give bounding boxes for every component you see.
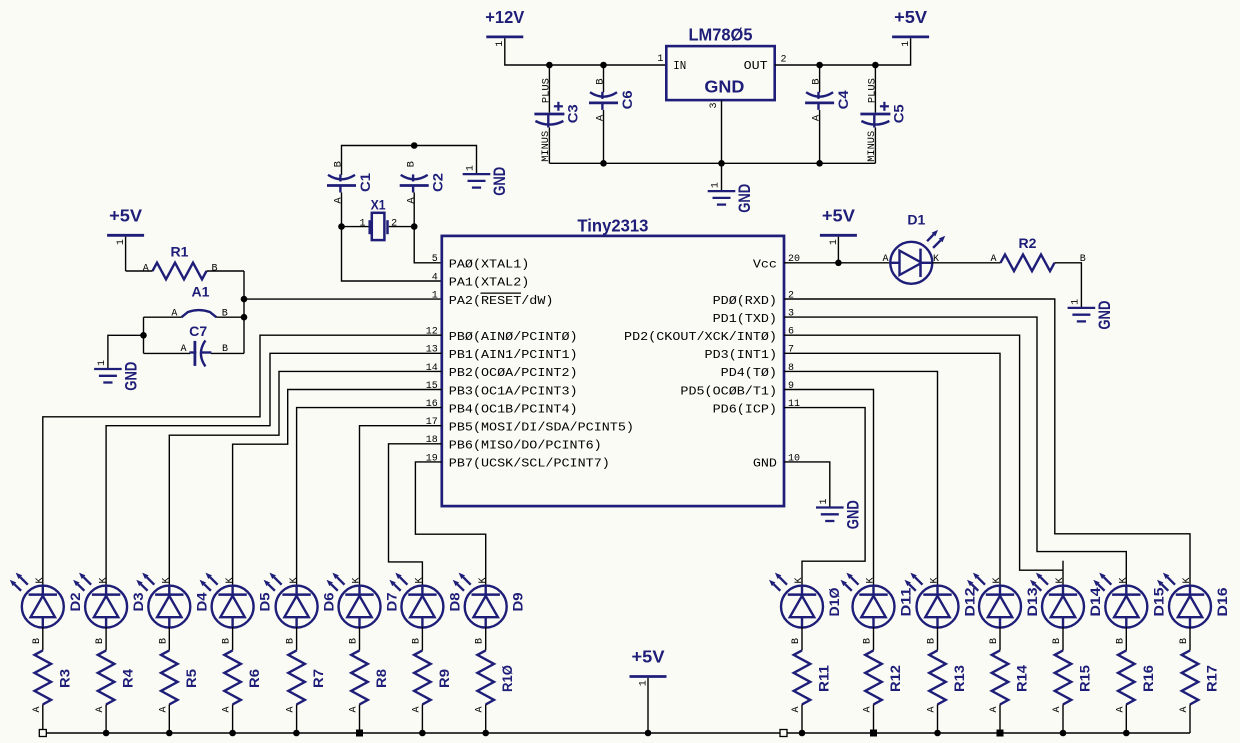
svg-text:K: K xyxy=(794,577,805,583)
wire PD1 to D15 xyxy=(784,317,1126,586)
svg-text:A: A xyxy=(349,706,360,712)
svg-text:R12: R12 xyxy=(887,665,903,692)
wire PB6 to D8 xyxy=(389,444,442,586)
svg-text:R1: R1 xyxy=(171,244,189,260)
wire D4 to R5 xyxy=(168,627,170,651)
wire D3 to R4 xyxy=(105,627,107,651)
resistor R12 xyxy=(865,650,903,704)
svg-text:11: 11 xyxy=(788,399,800,410)
svg-text:PAØ(XTAL1): PAØ(XTAL1) xyxy=(449,258,530,272)
LED D9 xyxy=(453,573,526,713)
svg-text:Tiny2313: Tiny2313 xyxy=(577,216,648,236)
svg-text:D9: D9 xyxy=(510,592,526,611)
LED D12 xyxy=(905,573,978,713)
wire D6 to R7 xyxy=(296,627,298,651)
power +12V xyxy=(485,7,524,47)
junction C4 bottom xyxy=(816,160,823,167)
svg-text:B: B xyxy=(158,638,169,644)
svg-text:9: 9 xyxy=(788,381,794,392)
voltage regulator LM7805 xyxy=(657,25,786,109)
svg-text:14: 14 xyxy=(426,363,438,374)
resistor R9 xyxy=(414,650,452,704)
wire C5 lower xyxy=(874,128,876,164)
svg-text:C3: C3 xyxy=(564,104,580,123)
wire PB3 to D5 xyxy=(233,390,442,587)
svg-text:B: B xyxy=(349,638,360,644)
svg-text:R11: R11 xyxy=(816,665,832,692)
svg-text:D13: D13 xyxy=(1024,587,1040,616)
wire R5 to rail xyxy=(168,704,170,733)
svg-text:GND: GND xyxy=(753,457,777,471)
LED D1 xyxy=(882,211,945,283)
resistor R6 xyxy=(224,650,262,704)
LED D16 xyxy=(1157,573,1230,713)
power +5V reset xyxy=(107,206,144,246)
wire C6 upper xyxy=(603,65,605,92)
resistor R16 xyxy=(1118,650,1156,704)
svg-text:A: A xyxy=(791,706,802,712)
LED D5 xyxy=(200,573,273,713)
svg-text:16: 16 xyxy=(426,399,438,410)
svg-text:A: A xyxy=(405,197,417,204)
capacitor C4 xyxy=(805,78,851,121)
svg-text:A: A xyxy=(595,114,607,121)
svg-text:3: 3 xyxy=(709,102,720,108)
svg-text:+5V: +5V xyxy=(109,206,142,226)
junction rail D5 xyxy=(229,730,236,737)
svg-text:A: A xyxy=(333,197,345,204)
ground xtal xyxy=(463,165,509,196)
svg-text:D8: D8 xyxy=(446,592,462,611)
svg-text:GND: GND xyxy=(736,184,754,213)
svg-text:1: 1 xyxy=(711,182,722,188)
resistor R13 xyxy=(929,650,967,704)
wire D15 to R16 xyxy=(1125,627,1127,651)
wire end marker mid xyxy=(780,730,787,737)
wire rail to ground xyxy=(721,163,723,191)
svg-text:B: B xyxy=(1115,638,1126,644)
junction rail D9 xyxy=(482,730,489,737)
wire R9 to rail xyxy=(421,704,423,733)
svg-text:PB1(AIN1/PCINT1): PB1(AIN1/PCINT1) xyxy=(449,348,578,362)
svg-text:B: B xyxy=(32,638,43,644)
svg-text:1: 1 xyxy=(97,360,108,366)
svg-text:GND: GND xyxy=(704,76,744,96)
svg-text:OUT: OUT xyxy=(744,59,768,73)
svg-text:B: B xyxy=(411,638,422,644)
svg-text:R2: R2 xyxy=(1019,235,1037,251)
svg-text:D14: D14 xyxy=(1087,587,1103,616)
svg-text:C1: C1 xyxy=(357,173,373,192)
LED D14 xyxy=(1030,573,1103,713)
svg-text:A: A xyxy=(811,114,823,121)
svg-text:A: A xyxy=(1052,706,1063,712)
wire C3 upper xyxy=(548,65,550,113)
junction rail D12 xyxy=(934,730,941,737)
wire A1 to C7 left xyxy=(143,317,145,353)
junction pin3 rail xyxy=(718,160,725,167)
junction X1 left xyxy=(338,223,345,230)
wire D2 to R3 xyxy=(42,627,44,651)
wire LM7805 pin3 xyxy=(721,100,723,163)
junction rail D8 xyxy=(419,730,426,737)
LED D2 xyxy=(10,573,83,713)
wire C7 A xyxy=(144,352,191,354)
wire X1 pin1 xyxy=(342,226,370,228)
svg-text:PDØ(RXD): PDØ(RXD) xyxy=(713,294,777,308)
svg-text:A: A xyxy=(32,706,43,712)
svg-text:K: K xyxy=(1119,577,1130,583)
LED D4 xyxy=(136,573,209,713)
svg-text:D15: D15 xyxy=(1150,587,1166,616)
svg-text:GND: GND xyxy=(491,167,509,196)
svg-text:K: K xyxy=(162,577,173,583)
svg-text:C2: C2 xyxy=(430,173,446,192)
wire A1 B xyxy=(216,316,244,318)
svg-text:B: B xyxy=(475,638,486,644)
wire D7 to R8 xyxy=(359,627,361,651)
svg-text:1: 1 xyxy=(1070,299,1081,305)
resistor R11 xyxy=(794,650,832,704)
wire R16 to rail xyxy=(1125,704,1127,733)
svg-text:1: 1 xyxy=(466,165,477,171)
wire C1 C2 top link xyxy=(342,146,477,176)
svg-text:B: B xyxy=(405,161,417,167)
svg-text:A: A xyxy=(989,706,1000,712)
svg-text:10: 10 xyxy=(788,453,800,464)
svg-text:K: K xyxy=(289,577,300,583)
svg-text:A: A xyxy=(286,706,297,712)
wire +5V vcc stub xyxy=(837,237,839,263)
svg-text:1: 1 xyxy=(819,498,830,504)
wire R14 to rail xyxy=(999,704,1001,733)
svg-text:B: B xyxy=(333,161,345,167)
wire R3 to rail xyxy=(42,704,44,733)
svg-text:GND: GND xyxy=(844,500,862,529)
svg-text:1: 1 xyxy=(901,41,912,47)
wire R17 to rail xyxy=(1189,704,1191,733)
svg-text:R4: R4 xyxy=(120,669,136,688)
junction reset gnd xyxy=(140,332,147,339)
svg-text:R8: R8 xyxy=(373,669,389,688)
svg-text:A: A xyxy=(475,706,486,712)
wire PD6 to D10 xyxy=(784,408,865,587)
wire PD4 to D12 xyxy=(784,371,938,586)
svg-text:19: 19 xyxy=(426,453,438,464)
svg-text:K: K xyxy=(98,577,109,583)
wire C2 to PA0 xyxy=(414,193,442,263)
LED D1Ø xyxy=(769,573,842,713)
microcontroller U1 Tiny2313 xyxy=(426,216,800,506)
svg-text:B: B xyxy=(211,263,217,274)
svg-text:+5V: +5V xyxy=(632,647,665,667)
ground IC xyxy=(816,498,862,529)
capacitor C1 xyxy=(327,161,373,204)
capacitor C3 xyxy=(534,78,580,162)
svg-text:PA1(XTAL2): PA1(XTAL2) xyxy=(449,276,530,290)
junction Vcc +5V xyxy=(835,260,842,267)
svg-text:R9: R9 xyxy=(436,669,452,688)
wire R8 to rail xyxy=(359,704,361,733)
svg-text:PD4(TØ): PD4(TØ) xyxy=(721,366,777,380)
wire R13 to rail xyxy=(937,704,939,733)
capacitor C2 xyxy=(400,161,446,204)
svg-text:B: B xyxy=(1179,638,1190,644)
wire +12V to LM7805 IN xyxy=(505,38,667,65)
junction C6 bottom xyxy=(600,160,607,167)
junction C2 top xyxy=(411,142,418,149)
svg-text:R5: R5 xyxy=(183,669,199,688)
ground R2 xyxy=(1068,299,1114,330)
svg-text:A: A xyxy=(863,706,874,712)
svg-text:D3: D3 xyxy=(130,592,146,611)
svg-text:8: 8 xyxy=(788,363,794,374)
svg-text:12: 12 xyxy=(426,327,438,338)
LED D11 xyxy=(841,573,914,713)
svg-text:PB5(MOSI/DI/SDA/PCINT5): PB5(MOSI/DI/SDA/PCINT5) xyxy=(449,421,634,435)
svg-text:1: 1 xyxy=(359,218,365,229)
svg-text:B: B xyxy=(927,638,938,644)
svg-text:A: A xyxy=(95,706,106,712)
wire C4 upper xyxy=(819,65,821,92)
wire to reset ground xyxy=(108,335,144,369)
wire R12 to rail xyxy=(873,704,875,733)
wire D1Ø to R11 xyxy=(801,627,803,651)
svg-text:K: K xyxy=(35,577,46,583)
svg-text:B: B xyxy=(791,638,802,644)
svg-text:R13: R13 xyxy=(951,665,967,692)
wire R2 B to ground xyxy=(1055,263,1082,308)
wire D14 to R15 xyxy=(1062,627,1064,651)
svg-text:X1: X1 xyxy=(371,196,386,212)
junction rail D11 sq xyxy=(870,730,877,737)
svg-text:C5: C5 xyxy=(890,104,906,123)
svg-text:PB3(OC1A/PCINT3): PB3(OC1A/PCINT3) xyxy=(449,384,578,398)
svg-text:B: B xyxy=(811,78,823,84)
svg-text:B: B xyxy=(1052,638,1063,644)
svg-text:20: 20 xyxy=(788,254,800,265)
wire R7 to rail xyxy=(296,704,298,733)
resistor R5 xyxy=(161,650,199,704)
svg-text:1: 1 xyxy=(432,290,438,301)
wire PD5 to D11 xyxy=(784,390,874,587)
svg-text:A: A xyxy=(1179,706,1190,712)
svg-text:R7: R7 xyxy=(310,669,326,688)
wire D12 to R13 xyxy=(937,627,939,651)
junction C3 top xyxy=(546,62,553,69)
junction rail D13 sq xyxy=(997,730,1004,737)
svg-text:D7: D7 xyxy=(384,592,400,611)
wire C5 upper xyxy=(874,65,876,113)
wire bottom +5V rail xyxy=(43,732,1190,734)
wire PB7 to D9 xyxy=(415,462,485,586)
svg-text:D2: D2 xyxy=(67,592,83,611)
wire OUT to +5V xyxy=(775,38,911,65)
power +5V psu xyxy=(892,7,929,47)
svg-text:A: A xyxy=(411,706,422,712)
wire Vcc to D1 xyxy=(784,262,890,264)
wire R1 A xyxy=(126,270,153,272)
wire D9 to R1Ø xyxy=(485,627,487,651)
svg-text:D1: D1 xyxy=(907,211,925,227)
svg-text:R15: R15 xyxy=(1077,665,1093,692)
wire D1 to R2 xyxy=(932,262,1001,264)
junction rail D15 xyxy=(1123,730,1130,737)
svg-text:PB7(UCSK/SCL/PCINT7): PB7(UCSK/SCL/PCINT7) xyxy=(449,457,610,471)
LED D13 xyxy=(967,573,1040,713)
svg-text:K: K xyxy=(352,577,363,583)
svg-text:C7: C7 xyxy=(189,323,207,339)
svg-text:PD2(CKOUT/XCK/INTØ): PD2(CKOUT/XCK/INTØ) xyxy=(624,330,777,344)
junction reset A1 xyxy=(241,314,248,321)
junction rail D3 xyxy=(103,730,110,737)
wire R11 to rail xyxy=(801,704,803,733)
wire PD2 to D14 xyxy=(784,335,1063,570)
wire C4 lower xyxy=(819,110,821,163)
svg-text:B: B xyxy=(286,638,297,644)
capacitor C6 xyxy=(589,78,635,121)
wire D11 to R12 xyxy=(873,627,875,651)
svg-text:B: B xyxy=(95,638,106,644)
LED D8 xyxy=(389,573,462,713)
resistor R2 xyxy=(990,235,1085,271)
svg-text:IN: IN xyxy=(673,59,686,73)
svg-text:+5V: +5V xyxy=(822,206,855,226)
wire C6 lower xyxy=(603,110,605,163)
wire D13 to R14 xyxy=(999,627,1001,651)
svg-text:GND: GND xyxy=(1096,301,1114,330)
junction rail D7 sq xyxy=(356,730,363,737)
LED D3 xyxy=(73,573,146,713)
wire PD0 to D16 xyxy=(784,299,1190,586)
svg-text:7: 7 xyxy=(788,345,794,356)
svg-text:B: B xyxy=(222,638,233,644)
wire X1 pin2 xyxy=(389,226,414,228)
wire PB2 to D4 xyxy=(169,371,442,586)
power +5V rail xyxy=(630,647,667,687)
svg-text:17: 17 xyxy=(426,417,438,428)
svg-text:R6: R6 xyxy=(246,669,262,688)
junction rail D6 xyxy=(293,730,300,737)
svg-text:PLUS: PLUS xyxy=(866,78,878,103)
capacitor C5 xyxy=(860,78,906,162)
svg-text:LM78Ø5: LM78Ø5 xyxy=(689,25,753,45)
junction X1 right xyxy=(411,223,418,230)
svg-text:5: 5 xyxy=(432,254,438,265)
resistor R3 xyxy=(35,650,73,704)
svg-text:15: 15 xyxy=(426,381,438,392)
svg-text:K: K xyxy=(478,577,489,583)
svg-text:PBØ(AINØ/PCINTØ): PBØ(AINØ/PCINTØ) xyxy=(449,330,578,344)
svg-text:R1Ø: R1Ø xyxy=(499,665,515,692)
wire D5 to R6 xyxy=(232,627,234,651)
svg-text:Vcc: Vcc xyxy=(753,258,777,272)
svg-text:18: 18 xyxy=(426,435,438,446)
wire IC GND pin10 xyxy=(784,462,830,508)
svg-text:D16: D16 xyxy=(1214,587,1230,616)
svg-text:B: B xyxy=(989,638,1000,644)
LED D6 xyxy=(264,573,337,713)
pushbutton A1 xyxy=(171,284,227,320)
wire C1 to PA1 xyxy=(342,193,442,282)
power +5V vcc xyxy=(820,206,857,246)
svg-text:B: B xyxy=(595,78,607,84)
svg-text:+5V: +5V xyxy=(894,7,927,27)
svg-text:GND: GND xyxy=(122,362,140,391)
wire PB0 to D2 xyxy=(43,335,442,586)
svg-text:D5: D5 xyxy=(257,592,273,611)
wire R6 to rail xyxy=(232,704,234,733)
wire end marker left xyxy=(39,730,46,737)
svg-text:R17: R17 xyxy=(1204,665,1220,692)
svg-text:6: 6 xyxy=(788,327,794,338)
svg-text:A: A xyxy=(222,706,233,712)
resistor R7 xyxy=(288,650,326,704)
svg-text:PB4(OC1B/PCINT4): PB4(OC1B/PCINT4) xyxy=(449,402,578,416)
wire R15 to rail xyxy=(1062,704,1064,733)
junction reset PA2 xyxy=(241,296,248,303)
svg-text:2: 2 xyxy=(781,54,787,65)
svg-text:2: 2 xyxy=(391,218,397,229)
junction C6 top xyxy=(600,62,607,69)
svg-text:A1: A1 xyxy=(192,284,210,300)
svg-text:PD1(TXD): PD1(TXD) xyxy=(713,312,777,326)
resistor R15 xyxy=(1055,650,1093,704)
crystal X1 xyxy=(359,196,397,240)
svg-text:D1Ø: D1Ø xyxy=(826,587,842,616)
junction C4 top xyxy=(816,62,823,69)
svg-text:1: 1 xyxy=(657,54,663,65)
ground reset xyxy=(94,360,140,391)
resistor R4 xyxy=(98,650,136,704)
svg-text:A: A xyxy=(990,254,996,265)
svg-text:K: K xyxy=(1055,577,1066,583)
junction rail D10 xyxy=(799,730,806,737)
wire PB1 to D3 xyxy=(106,353,442,586)
svg-text:D12: D12 xyxy=(962,587,978,616)
svg-text:A: A xyxy=(927,706,938,712)
LED D7 xyxy=(327,573,400,713)
wire D8 to R9 xyxy=(421,627,423,651)
wire A1 A xyxy=(144,316,182,318)
wire R1 B xyxy=(207,270,245,272)
svg-text:3: 3 xyxy=(788,309,794,320)
svg-text:B: B xyxy=(863,638,874,644)
svg-text:PB6(MISO/DO/PCINT6): PB6(MISO/DO/PCINT6) xyxy=(449,439,602,453)
svg-text:PB2(OCØA/PCINT2): PB2(OCØA/PCINT2) xyxy=(449,366,578,380)
svg-text:K: K xyxy=(992,577,1003,583)
resistor R8 xyxy=(351,650,389,704)
svg-text:A: A xyxy=(143,263,149,274)
svg-text:2: 2 xyxy=(788,290,794,301)
wire C3 lower xyxy=(548,128,550,164)
LED D15 xyxy=(1093,573,1166,713)
svg-text:K: K xyxy=(1182,577,1193,583)
junction +5V rail xyxy=(645,730,652,737)
wire D16 to R17 xyxy=(1189,627,1191,651)
svg-text:C6: C6 xyxy=(619,90,635,109)
wire C7 B xyxy=(211,352,244,354)
svg-text:C4: C4 xyxy=(835,90,851,109)
ground psu xyxy=(708,182,754,213)
wire +5V rail stub xyxy=(647,678,649,733)
svg-text:13: 13 xyxy=(426,345,438,356)
wire R1Ø to rail xyxy=(485,704,487,733)
svg-text:4: 4 xyxy=(432,272,438,283)
wire R4 to rail xyxy=(105,704,107,733)
junction C5 top xyxy=(872,62,879,69)
svg-text:D6: D6 xyxy=(321,592,337,611)
